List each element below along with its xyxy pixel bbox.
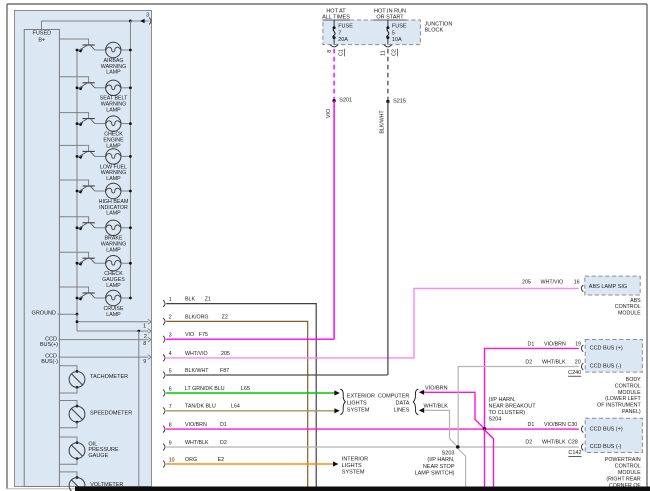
- svg-text:Z2: Z2: [222, 314, 228, 320]
- svg-text:WHT/BLK: WHT/BLK: [542, 440, 566, 446]
- gauge TACHOMETER M1: [69, 372, 85, 388]
- node rail junction L5: [129, 190, 132, 193]
- svg-text:9: 9: [169, 440, 172, 446]
- svg-text:FUSED: FUSED: [32, 31, 51, 37]
- wire base feed Q6: [59, 217, 88, 223]
- wire base feed Q4: [59, 145, 88, 151]
- svg-text:ABS: ABS: [630, 298, 641, 304]
- svg-text:3: 3: [146, 12, 149, 18]
- svg-text:6: 6: [169, 386, 172, 392]
- svg-text:NEAR STOP: NEAR STOP: [423, 464, 455, 470]
- svg-text:16: 16: [574, 280, 580, 286]
- svg-text:E2: E2: [218, 457, 225, 463]
- powertrain control module box: [585, 418, 642, 452]
- wire gauge VOLTMETER feed top: [59, 472, 77, 478]
- svg-text:CCD BUS (+): CCD BUS (+): [590, 346, 623, 352]
- connector cluster pin 9: [163, 444, 165, 451]
- node top junction: [129, 20, 132, 23]
- svg-text:WHT/BLK: WHT/BLK: [424, 404, 449, 410]
- node emitter junction Q7: [76, 262, 79, 265]
- svg-text:2: 2: [169, 315, 172, 321]
- wire ground stub: [58, 313, 78, 315]
- wire emitter rail: [76, 50, 78, 331]
- connector cluster pin 7: [163, 407, 165, 414]
- wire base feed Q1: [59, 39, 88, 45]
- wire gauge TACHOMETER feed top: [59, 366, 77, 372]
- svg-text:LAMP: LAMP: [106, 108, 121, 114]
- wire collector Q8 to lamp: [95, 297, 106, 299]
- node rail junction L3: [129, 122, 132, 125]
- wire gauge SPEEDOMETER feed top: [59, 401, 77, 407]
- svg-text:1: 1: [169, 297, 172, 303]
- node emitter junction Q6: [76, 226, 79, 229]
- svg-text:BLOCK: BLOCK: [425, 28, 444, 34]
- svg-text:TAN/DK BLU: TAN/DK BLU: [185, 404, 216, 410]
- instrument cluster box: [15, 11, 152, 487]
- svg-text:VIO/BRN: VIO/BRN: [544, 422, 566, 428]
- svg-text:8: 8: [169, 422, 172, 428]
- svg-text:COMPUTER: COMPUTER: [378, 393, 410, 399]
- wire collector Q3 to lamp: [95, 123, 106, 125]
- svg-text:D2: D2: [525, 440, 532, 446]
- svg-text:C28: C28: [568, 440, 578, 446]
- svg-text:LAMP: LAMP: [106, 211, 121, 217]
- wire collector Q1 to lamp: [95, 49, 106, 51]
- svg-text:OF INSTRUMENT: OF INSTRUMENT: [597, 403, 641, 409]
- connector cluster pin 1: [163, 300, 165, 307]
- svg-text:BLK: BLK: [185, 297, 195, 303]
- svg-text:7: 7: [169, 404, 172, 410]
- wire lamp L5 to rail: [121, 190, 130, 192]
- svg-text:DATA: DATA: [396, 400, 410, 406]
- wire lamp L7 to rail: [121, 262, 130, 264]
- node gauge OIL top: [76, 441, 79, 444]
- node emitter junction Q2: [76, 86, 79, 89]
- node rail junction L2: [129, 86, 132, 89]
- arrow to interior lights (orange): [333, 461, 338, 466]
- wire collector Q4 to lamp: [95, 155, 106, 157]
- wire BLK/WHT fuse5 solid segment: [387, 102, 389, 376]
- svg-text:D2: D2: [220, 440, 227, 446]
- svg-text:PANEL): PANEL): [622, 409, 641, 415]
- wire base feed Q8: [59, 287, 88, 293]
- svg-text:(RIGHT REAR: (RIGHT REAR: [606, 476, 641, 482]
- wire D1 VIO/BRN to BCM: [485, 348, 579, 428]
- svg-text:1: 1: [143, 324, 146, 330]
- transistor Q3: [78, 119, 95, 127]
- splice S203: [456, 445, 460, 449]
- arrow computer data line WHT/BLK: [419, 408, 424, 413]
- svg-text:5: 5: [169, 368, 172, 374]
- svg-text:OR START: OR START: [376, 14, 404, 20]
- svg-text:WHT/VIO: WHT/VIO: [185, 351, 208, 357]
- node emitter junction Q5: [76, 190, 79, 193]
- node ground junction: [76, 313, 79, 316]
- wire collector Q6 to lamp: [95, 227, 106, 229]
- svg-text:CCD BUS (-): CCD BUS (-): [590, 364, 622, 370]
- svg-text:SYSTEM: SYSTEM: [342, 470, 365, 476]
- svg-text:C30: C30: [568, 422, 578, 428]
- wire lamp L4 to rail: [121, 155, 130, 157]
- wire lamp L3 to rail: [121, 123, 130, 125]
- brace exterior lights: [340, 389, 345, 414]
- wire LT GRN/DK BLU L65 pin6: [166, 392, 335, 394]
- page border frame: [7, 3, 647, 5]
- svg-text:EXTERIOR: EXTERIOR: [347, 393, 375, 399]
- wire VIO/BRN data line: [424, 392, 484, 429]
- svg-text:ABS LAMP SIG: ABS LAMP SIG: [589, 284, 627, 290]
- svg-text:5: 5: [392, 30, 395, 36]
- connector PCM C30 arc: [581, 426, 583, 433]
- svg-text:WHT/VIO: WHT/VIO: [541, 280, 564, 286]
- junction block box: [323, 20, 421, 45]
- svg-text:VIO/BRN: VIO/BRN: [425, 385, 448, 391]
- gauge OIL M3: [69, 443, 85, 459]
- svg-text:F87: F87: [220, 368, 229, 374]
- node rail junction L1: [129, 49, 132, 52]
- connector cluster pin 8: [163, 426, 165, 433]
- wire VIO F75 pin3 horizontal: [166, 338, 334, 340]
- svg-text:CCD BUS (-): CCD BUS (-): [590, 444, 622, 450]
- lamp L8 CRUISE LAMP: [106, 290, 121, 305]
- node emitter junction Q3: [76, 122, 79, 125]
- wire TAN/DK BLU L64 pin7: [166, 410, 335, 412]
- svg-text:MODULE: MODULE: [618, 390, 641, 396]
- node rail junction L8: [129, 297, 132, 300]
- wire S204 down left branch: [484, 429, 486, 487]
- wire BLK/WHT F87 pin5 horizontal: [166, 374, 387, 376]
- svg-text:20A: 20A: [338, 37, 348, 43]
- svg-text:10: 10: [169, 457, 175, 463]
- svg-text:FUSE: FUSE: [392, 24, 407, 30]
- svg-text:205: 205: [221, 351, 230, 357]
- wire base feed Q3: [59, 113, 88, 119]
- wire BLK/WHT fuse5 dashed segment: [387, 49, 389, 102]
- node gauge SPEEDOMETER bottom: [76, 421, 79, 424]
- wire WHT/VIO 205 pin4: [166, 288, 579, 358]
- svg-text:8: 8: [143, 341, 146, 347]
- connector cluster pin 10: [163, 461, 165, 468]
- fuse F7 (FUSE 7 20A): [333, 26, 336, 29]
- wire to pin 3 with direction arrow: [130, 20, 148, 22]
- svg-text:BUS(-): BUS(-): [41, 359, 58, 365]
- svg-text:WHT/BLK: WHT/BLK: [542, 359, 566, 365]
- svg-text:FUSE: FUSE: [338, 24, 353, 30]
- svg-text:BLK/ORG: BLK/ORG: [185, 314, 209, 320]
- lamp L7 CHECK GAUGES LAMP: [106, 256, 121, 271]
- wire ccd bus+ to pin 8: [59, 339, 149, 341]
- node rail junction L4: [129, 155, 132, 158]
- svg-text:WHT/BLK: WHT/BLK: [185, 440, 209, 446]
- wire gauge SPEEDOMETER return bottom: [59, 422, 77, 428]
- wire hot feed to fuse 7: [333, 20, 335, 28]
- node gauge OIL bottom: [76, 457, 79, 460]
- svg-text:LIGHTS: LIGHTS: [347, 400, 367, 406]
- transistor Q8: [78, 293, 95, 301]
- wire ground rail lower: [76, 314, 78, 331]
- node gauge ground branch: [137, 330, 140, 333]
- svg-text:BLK/WHT: BLK/WHT: [185, 368, 209, 374]
- svg-text:JUNCTION: JUNCTION: [425, 21, 453, 27]
- svg-text:LIGHTS: LIGHTS: [342, 463, 362, 469]
- wire S204 down right branch: [485, 430, 494, 487]
- svg-text:D1: D1: [528, 422, 535, 428]
- wire WHT/BLK D2 pin9 to PCM: [166, 446, 579, 448]
- svg-text:LAMP SWITCH): LAMP SWITCH): [415, 470, 455, 476]
- svg-text:GROUND: GROUND: [32, 310, 56, 316]
- wire ground to pin 2: [77, 330, 148, 332]
- svg-text:L64: L64: [231, 404, 240, 410]
- body control module box: [585, 340, 642, 373]
- wire collector Q7 to lamp: [95, 262, 106, 264]
- svg-text:TO CLUSTER): TO CLUSTER): [489, 410, 526, 416]
- svg-text:L65: L65: [241, 386, 250, 392]
- svg-text:C2: C2: [392, 49, 398, 56]
- svg-text:LAMP: LAMP: [106, 176, 121, 182]
- connector ABS C arc: [581, 285, 583, 292]
- svg-text:BUS(+): BUS(+): [40, 342, 58, 348]
- wire base feed Q7: [59, 252, 88, 258]
- svg-text:INTERIOR: INTERIOR: [342, 456, 368, 462]
- fused B+ internal box U1: [24, 30, 59, 487]
- svg-text:NEAR BREAKOUT: NEAR BREAKOUT: [489, 404, 537, 410]
- lamp L2 SEAT BELT WARNING LAMP: [106, 80, 121, 95]
- svg-text:LT GRN/DK BLU: LT GRN/DK BLU: [185, 386, 225, 392]
- transistor Q7: [78, 258, 95, 266]
- wire BLK/ORG Z2 pin2: [166, 321, 308, 486]
- svg-text:3: 3: [169, 333, 172, 339]
- svg-text:MODULE: MODULE: [618, 470, 641, 476]
- lamp L3 CHECK ENGINE LAMP: [106, 116, 121, 131]
- transistor Q1: [78, 45, 95, 53]
- svg-text:VIO/BRN: VIO/BRN: [544, 341, 566, 347]
- wire ground to pin 1: [77, 321, 148, 323]
- svg-text:8: 8: [327, 50, 333, 53]
- wire collector Q5 to lamp: [95, 190, 106, 192]
- node rail junction L6: [129, 226, 132, 229]
- wire gauge OIL feed top: [59, 437, 77, 443]
- node emitter junction Q8: [76, 297, 79, 300]
- arrow computer data line VIO/BRN: [419, 390, 424, 395]
- gauge VOLTMETER M4: [69, 478, 85, 491]
- wire VIO/BRN D1 pin8 to PCM: [166, 428, 579, 430]
- svg-text:20: 20: [575, 359, 581, 365]
- connector cluster pin 3: [163, 336, 165, 343]
- svg-text:TACHOMETER: TACHOMETER: [90, 374, 128, 380]
- svg-text:B+: B+: [38, 38, 45, 44]
- arrow to exterior lights (tan): [334, 408, 339, 413]
- svg-text:CONTROL: CONTROL: [615, 464, 641, 470]
- node gauge TACHOMETER top: [76, 370, 79, 373]
- wire fused B+ to pin 3: [42, 21, 131, 30]
- svg-text:205: 205: [522, 280, 531, 286]
- bottom cut-off bar: [75, 487, 650, 491]
- svg-text:LINES: LINES: [393, 407, 409, 413]
- svg-text:F75: F75: [199, 332, 208, 338]
- connector junction block C1 pin 8: [330, 45, 338, 47]
- node rail junction L7: [129, 262, 132, 265]
- svg-text:(I/P HARN,: (I/P HARN,: [489, 397, 517, 403]
- lamp L1 AIRBAG WARNING LAMP: [106, 42, 121, 57]
- connector cluster pin 2: [163, 318, 165, 325]
- connector BCM pin19 arc: [581, 345, 583, 352]
- svg-text:CONTROL: CONTROL: [615, 383, 641, 389]
- node emitter junction Q4: [76, 155, 79, 158]
- arrow to exterior lights (green): [334, 390, 339, 395]
- svg-text:S203: S203: [442, 451, 455, 457]
- svg-text:LAMP: LAMP: [106, 312, 121, 318]
- svg-text:VIO: VIO: [326, 108, 332, 118]
- svg-text:CONTROL: CONTROL: [615, 304, 641, 310]
- node gauge VOLTMETER top: [76, 476, 79, 479]
- gauge SPEEDOMETER M2: [69, 406, 85, 422]
- svg-text:S204: S204: [489, 416, 502, 422]
- connector cluster pin 5: [163, 372, 165, 379]
- wire ccd bus- to pin 9: [59, 356, 149, 358]
- wire D2 WHT/BLK from BCM: [458, 367, 579, 448]
- wire VIO fuse7 dashed segment: [333, 49, 335, 101]
- wire gauge OIL return bottom: [59, 459, 77, 465]
- wire WHT/BLK data line: [424, 410, 458, 447]
- lamp L6 BRAKE WARNING LAMP: [106, 220, 121, 235]
- node emitter junction Q1: [76, 49, 79, 52]
- wire ORG E2 pin10: [166, 463, 333, 465]
- svg-text:D1: D1: [220, 422, 227, 428]
- svg-text:4: 4: [169, 351, 172, 357]
- svg-text:VIO/BRN: VIO/BRN: [185, 422, 207, 428]
- wire BLK Z1 pin1: [166, 304, 316, 487]
- node gauge TACHOMETER bottom: [76, 386, 79, 389]
- svg-text:C1: C1: [339, 49, 345, 56]
- connector cluster pin 6: [163, 390, 165, 397]
- connector cluster pin 4: [163, 355, 165, 362]
- svg-text:BLK/WHT: BLK/WHT: [380, 110, 386, 134]
- svg-text:S215: S215: [393, 99, 406, 105]
- wire hot feed to fuse 5: [387, 20, 389, 28]
- svg-text:ORG: ORG: [185, 457, 197, 463]
- splice S215: [386, 100, 389, 103]
- svg-text:11: 11: [381, 50, 387, 56]
- svg-text:VIO: VIO: [185, 332, 194, 338]
- lamp L4 LOW FUEL WARNING LAMP: [106, 149, 121, 164]
- svg-text:19: 19: [575, 341, 581, 347]
- transistor Q2: [78, 83, 95, 91]
- svg-text:LAMP: LAMP: [106, 248, 121, 254]
- svg-text:10A: 10A: [392, 37, 402, 43]
- svg-text:D1: D1: [528, 341, 535, 347]
- svg-text:MODULE: MODULE: [618, 311, 641, 317]
- connector pin 3 arc at cluster edge: [149, 18, 151, 25]
- svg-text:Z1: Z1: [205, 297, 211, 303]
- node ground pin1 branch: [76, 320, 79, 323]
- svg-text:C240: C240: [568, 370, 581, 376]
- transistor Q4: [78, 151, 95, 159]
- wire S203 down branch: [458, 449, 466, 487]
- wire VIO fuse7 solid segment: [333, 101, 335, 340]
- connector PCM C28 arc: [581, 444, 583, 451]
- svg-text:ALL TIMES: ALL TIMES: [322, 14, 350, 20]
- wire gauge ground rail: [138, 331, 140, 487]
- svg-text:SYSTEM: SYSTEM: [347, 407, 370, 413]
- svg-text:LAMP: LAMP: [106, 283, 121, 289]
- wire lamp supply rail: [129, 21, 131, 298]
- wire base feed Q2: [59, 77, 88, 83]
- svg-text:BODY: BODY: [626, 377, 641, 383]
- wire lamp L6 to rail: [121, 227, 130, 229]
- svg-text:GAUGE: GAUGE: [88, 453, 108, 459]
- connector BCM pin20 arc: [581, 363, 583, 370]
- svg-text:7: 7: [338, 30, 341, 36]
- fuse F5 (FUSE 5 10A): [386, 26, 389, 29]
- wire base feed Q5: [59, 180, 88, 186]
- ABS control module box: [585, 276, 640, 295]
- svg-text:LAMP: LAMP: [106, 70, 121, 76]
- svg-text:9: 9: [143, 359, 146, 365]
- svg-text:POWERTRAIN: POWERTRAIN: [605, 457, 641, 463]
- connector junction block C2 pin 11: [384, 45, 392, 47]
- transistor Q5: [78, 186, 95, 194]
- svg-text:CCD BUS (+): CCD BUS (+): [590, 426, 623, 432]
- lamp L5 HIGH BEAM INDICATOR LAMP: [106, 183, 121, 198]
- wire lamp L1 to rail: [121, 49, 130, 51]
- splice S204: [483, 427, 487, 431]
- svg-text:C142: C142: [568, 450, 581, 456]
- node gauge SPEEDOMETER top: [76, 405, 79, 408]
- wire gauge TACHOMETER return bottom: [59, 387, 77, 393]
- wire collector Q2 to lamp: [95, 87, 106, 89]
- transistor Q6: [78, 223, 95, 231]
- svg-text:S201: S201: [339, 98, 352, 104]
- svg-text:(LOWER LEFT: (LOWER LEFT: [605, 396, 641, 402]
- svg-text:(I/P HARN,: (I/P HARN,: [427, 457, 455, 463]
- wire lamp L2 to rail: [121, 87, 130, 89]
- svg-text:D2: D2: [525, 359, 532, 365]
- wire lamp L8 to rail: [121, 297, 130, 299]
- splice S201: [332, 99, 335, 102]
- svg-text:SPEEDOMETER: SPEEDOMETER: [90, 411, 132, 417]
- brace computer data lines: [413, 389, 418, 414]
